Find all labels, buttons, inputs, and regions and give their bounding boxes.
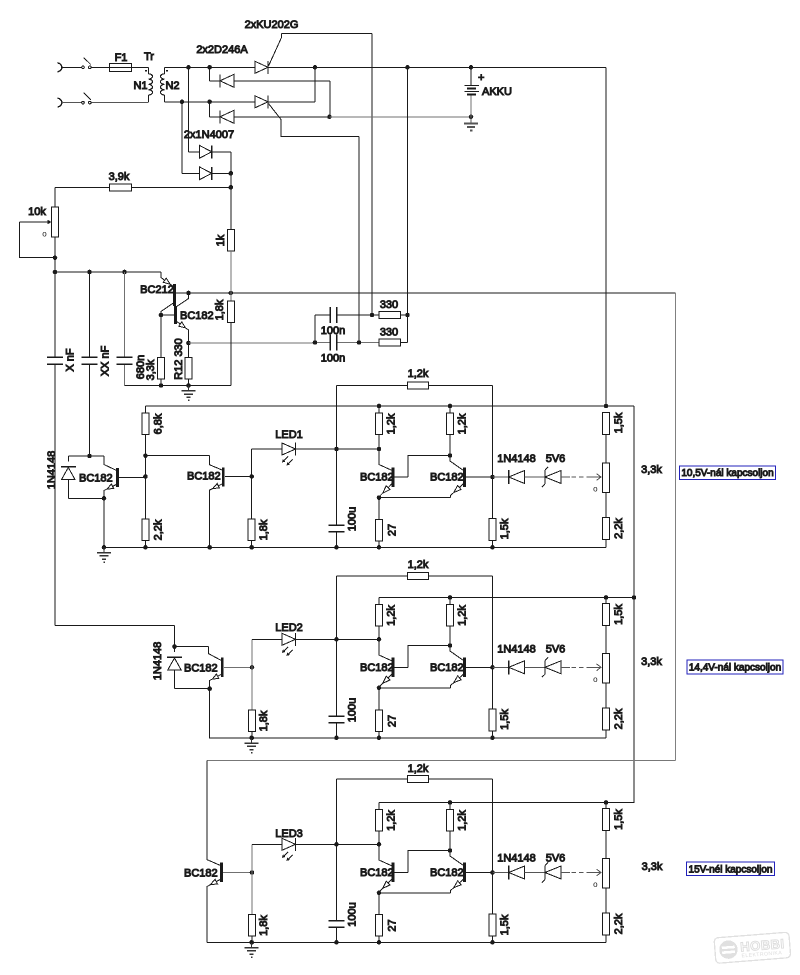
wire led2 left vertical <box>251 639 253 710</box>
transistor BC182 block3 d <box>450 851 493 893</box>
svg-text:BC182: BC182 <box>430 867 464 879</box>
node 3p9k line join <box>229 185 234 190</box>
node bc182c3 base to d collector <box>448 848 453 853</box>
wire XX nF vertical <box>89 272 91 456</box>
svg-text:100u: 100u <box>346 698 358 722</box>
node BC182 reg collector tap <box>186 291 191 296</box>
diode D1 2D246A upper <box>210 67 330 117</box>
node secondary bottom at x182 <box>180 100 185 105</box>
node divider mid <box>143 474 148 479</box>
wire loop2 bottom side <box>175 688 210 690</box>
node output row block1 <box>490 475 495 480</box>
node rail1b 100u <box>334 545 339 550</box>
node 680n tap <box>122 270 127 275</box>
svg-text:1,5k: 1,5k <box>499 518 511 539</box>
node rail1b 1,5k <box>490 545 495 550</box>
AC plug terminal top <box>58 63 62 72</box>
wire TH2 gate <box>269 104 360 343</box>
diode zener 5V6 block2 <box>542 657 570 677</box>
svg-text:1,2k: 1,2k <box>408 368 429 380</box>
wire led2 to collector <box>337 638 380 640</box>
svg-text:1,8k: 1,8k <box>258 710 270 731</box>
diode zener 5V6 block1 <box>542 467 570 487</box>
svg-text:1N4148: 1N4148 <box>152 642 164 681</box>
wire led1 left vertical <box>251 449 253 519</box>
ground block1 <box>97 547 111 562</box>
resistor 1,2k block2 b <box>447 598 454 646</box>
wire supply row y760 <box>207 760 676 762</box>
wire led3 to collector <box>337 843 380 845</box>
wire loop1 to ground <box>103 498 105 547</box>
svg-text:R12 330: R12 330 <box>173 338 185 380</box>
capacitor XX nF <box>82 357 98 364</box>
wire 100n row2 <box>315 342 379 344</box>
wire 10k wiper loop <box>20 222 56 272</box>
node rail2 1,2k b <box>448 595 453 600</box>
node R12 bottom <box>186 383 191 388</box>
resistor 1,5k mid block2 <box>489 667 496 738</box>
resistor 3,9k <box>110 184 132 191</box>
svg-text:LED1: LED1 <box>275 429 303 441</box>
potentiometer chain block1 <box>603 435 610 518</box>
node secondary top at x188 <box>186 65 191 70</box>
node loop2 top <box>172 644 177 649</box>
transistor BC182 block2 c <box>379 639 450 688</box>
svg-text:+: + <box>478 72 484 84</box>
resistor 1,2k block3 a <box>376 803 383 845</box>
node emitter row block2 <box>377 686 382 691</box>
diode 1N4148 block3 out <box>493 866 546 880</box>
resistor 1,8k block1 <box>248 519 255 547</box>
node led1 100u <box>334 447 339 452</box>
node led2 base tap <box>250 665 255 670</box>
svg-text:5V6: 5V6 <box>546 453 566 465</box>
callout box 14,4V <box>687 660 783 674</box>
svg-text:BC182: BC182 <box>184 662 218 674</box>
svg-text:BC212: BC212 <box>140 284 174 296</box>
svg-text:LED2: LED2 <box>275 622 303 634</box>
wire secondary bottom line <box>165 101 316 103</box>
capacitor 100u block2 <box>329 716 345 738</box>
wire feedback row block2 <box>337 576 493 667</box>
wire 100u vertical block1 <box>336 449 338 525</box>
svg-text:1N4148: 1N4148 <box>497 644 536 656</box>
wire led1 to collector <box>337 448 380 450</box>
node negative rail join <box>327 115 332 120</box>
node 1k bottom tap <box>229 291 234 296</box>
wire top rail block1 <box>146 405 635 407</box>
wire rail1 end down <box>606 406 634 803</box>
svg-text:1,2k: 1,2k <box>456 810 468 831</box>
node rail1 chain <box>604 404 609 409</box>
wire block3 bottom left corner <box>207 941 252 943</box>
wire top AC line <box>62 66 83 68</box>
svg-text:1,2k: 1,2k <box>385 810 397 831</box>
svg-text:1,2k: 1,2k <box>456 413 468 434</box>
capacitor 680n <box>117 357 133 364</box>
wire left rail to block2 <box>55 626 175 647</box>
node rail3 chain <box>604 800 609 805</box>
svg-text:1,5k: 1,5k <box>613 604 625 625</box>
wire x675 vertical <box>675 293 677 761</box>
AC plug terminal bottom <box>58 98 62 107</box>
svg-text:100u: 100u <box>346 902 358 926</box>
node BC182 reg emitter <box>186 341 191 346</box>
capacitor 100n upper <box>330 307 337 323</box>
svg-text:N1: N1 <box>133 80 147 92</box>
svg-text:1,2k: 1,2k <box>385 413 397 434</box>
capacitor X nF <box>47 357 63 364</box>
wire loop2 emitter down <box>210 689 252 738</box>
resistor 2,2k chain block2 <box>603 708 610 738</box>
resistor 1,2k feedback block3 <box>408 776 429 783</box>
node rail1b ground <box>102 545 107 550</box>
node bc182c base to d collector <box>448 453 453 458</box>
node divider top <box>143 453 148 458</box>
wire y272 row to BC212 emitter <box>55 271 161 273</box>
ground block3 <box>245 942 259 957</box>
diode D4 1N4007 lower <box>182 102 231 180</box>
svg-text:N2: N2 <box>165 80 179 92</box>
node gate1 junction <box>370 313 375 318</box>
svg-text:27: 27 <box>386 715 398 727</box>
node x55 y272 <box>53 270 58 275</box>
node rail1 1,2k b <box>448 404 453 409</box>
resistor 1,2k block1 b <box>447 406 454 456</box>
svg-text:BC182: BC182 <box>79 473 113 485</box>
node battery plus <box>469 65 474 70</box>
logo HOBBI ELEKTRONIKA watermark <box>714 932 791 963</box>
svg-text:10k: 10k <box>28 206 46 218</box>
svg-text:2x2D246A: 2x2D246A <box>196 44 248 56</box>
resistor 1,2k feedback block1 <box>408 382 429 389</box>
node battery minus <box>469 115 474 120</box>
node rail1b 1,8k <box>249 545 254 550</box>
node loop2 bottom <box>207 686 212 691</box>
node emitter row block1 <box>377 495 382 500</box>
transistor BC182 block3 c <box>379 844 450 893</box>
svg-text:14,4V-nál kapcsoljon: 14,4V-nál kapcsoljon <box>689 663 781 674</box>
svg-text:LED3: LED3 <box>275 828 303 840</box>
wire emitter row block1 <box>379 497 451 499</box>
svg-text:1,2k: 1,2k <box>456 605 468 626</box>
resistor 27 block1 <box>376 498 383 548</box>
capacitor 100u block3 <box>329 921 345 943</box>
wire negative rail to battery <box>330 116 472 118</box>
node rail1b 2,2k <box>143 545 148 550</box>
wire loop1 bottom <box>68 497 104 499</box>
potentiometer chain block3 <box>603 831 610 914</box>
diode D3 1N4007 upper <box>189 67 231 173</box>
node secondary bottom at x209 <box>207 100 212 105</box>
wire x407 vertical <box>401 67 408 342</box>
node diodes join <box>229 171 234 176</box>
svg-text:330: 330 <box>380 299 398 311</box>
svg-text:2,2k: 2,2k <box>613 913 625 934</box>
resistor 27 block2 <box>376 688 383 738</box>
svg-text:3,3k: 3,3k <box>641 656 662 668</box>
svg-text:o: o <box>593 485 598 494</box>
wire bottom AC line <box>62 102 83 104</box>
svg-text:BC182: BC182 <box>360 472 394 484</box>
node 330 upper right <box>405 313 410 318</box>
svg-text:XX nF: XX nF <box>99 345 111 376</box>
svg-text:3,3k: 3,3k <box>641 464 662 476</box>
node led3 base tap <box>250 870 255 875</box>
resistor 1,2k block1 a <box>376 406 383 449</box>
wire join down to 3p9k node <box>230 173 232 187</box>
wire 3,9k corner to pot <box>54 187 56 207</box>
diode D2 2D246A lower <box>210 102 330 124</box>
switch S1a <box>82 58 91 69</box>
svg-text:BC182: BC182 <box>187 471 221 483</box>
wire regulator bottom row <box>125 323 232 386</box>
node rail2b 100u <box>334 736 339 741</box>
node rail2b 27 <box>377 736 382 741</box>
svg-text:1,2k: 1,2k <box>385 605 397 626</box>
resistor 1k <box>227 187 234 293</box>
resistor 1,2k feedback block2 <box>408 573 429 580</box>
node loop1 top <box>87 454 92 459</box>
svg-text:BC182: BC182 <box>360 867 394 879</box>
capacitor 100u block1 <box>329 525 345 547</box>
node led1 base tap <box>249 474 254 479</box>
wire arrow to pot block1 <box>587 474 601 481</box>
svg-text:2x1N4007: 2x1N4007 <box>184 129 234 141</box>
wire 100u vertical block2 <box>336 639 338 716</box>
node pot bottom loop <box>53 255 58 260</box>
wire 680n vertical <box>124 272 126 386</box>
wire top rail block3 <box>379 802 606 804</box>
node rail2 x634 <box>632 595 637 600</box>
svg-text:15V-nél kapcsoljon: 15V-nél kapcsoljon <box>689 864 773 875</box>
resistor 2,2k divider <box>142 519 149 547</box>
diode zener 5V6 block3 <box>542 863 570 883</box>
node xxnf tap <box>87 270 92 275</box>
capacitor 100n lower <box>330 335 337 351</box>
svg-text:1,8k: 1,8k <box>258 519 270 540</box>
svg-text:X nF: X nF <box>64 348 76 372</box>
svg-text:27: 27 <box>386 919 398 931</box>
transistor BC182 block1 c <box>379 449 450 498</box>
svg-text:3,9k: 3,9k <box>109 171 130 183</box>
node led1 collector <box>377 447 382 452</box>
resistor 330 upper <box>379 312 401 319</box>
thyristor TH2 <box>255 95 268 108</box>
LED LED3 <box>252 838 337 860</box>
node rail3b 1,5k <box>490 940 495 945</box>
node rail1b emitter <box>207 545 212 550</box>
transformer primary N1 <box>145 67 153 102</box>
battery AKKU <box>464 67 478 117</box>
svg-text:1,8k: 1,8k <box>214 299 226 320</box>
resistor R12 330 <box>185 343 192 386</box>
svg-text:1N4148: 1N4148 <box>46 451 58 490</box>
wire 100u vertical block3 <box>336 844 338 920</box>
node rail3 1,2k b <box>448 800 453 805</box>
resistor 1,5k chain block1 <box>603 413 610 435</box>
svg-text:2,2k: 2,2k <box>613 708 625 729</box>
svg-text:6,8k: 6,8k <box>152 413 164 434</box>
wire divider vertical <box>145 456 147 519</box>
thyristor TH1 <box>255 61 268 74</box>
svg-text:1,8k: 1,8k <box>258 915 270 936</box>
resistor 1,5k chain block3 <box>603 803 610 831</box>
node rail2b 1,5k <box>490 736 495 741</box>
resistor 1,8k block2 <box>249 710 256 738</box>
resistor 1,2k block3 b <box>447 803 454 851</box>
node rail3b 100u <box>334 940 339 945</box>
svg-text:o: o <box>593 675 598 684</box>
transformer secondary N2 <box>161 67 169 102</box>
node rail2b 1,8k <box>249 736 254 741</box>
node gate2 junction <box>357 340 362 345</box>
wire fuse to transformer <box>132 66 149 68</box>
svg-text:BC182: BC182 <box>180 310 214 322</box>
svg-text:1N4148: 1N4148 <box>497 453 536 465</box>
callout box 15V <box>687 862 775 876</box>
svg-text:2,2k: 2,2k <box>152 519 164 540</box>
node secondary top at x209 <box>207 65 212 70</box>
LED LED1 <box>252 443 337 465</box>
resistor 1,8k block3 <box>249 915 256 943</box>
switch S1b <box>82 93 91 104</box>
wire led3 left vertical <box>251 844 253 914</box>
node emitter row block3 <box>377 891 382 896</box>
node output row block3 <box>490 870 495 875</box>
wire left rail x55 down <box>54 272 56 626</box>
wire arrow to pot block3 <box>587 869 601 876</box>
svg-text:1,5k: 1,5k <box>499 914 511 935</box>
wire emitter row block2 <box>379 687 451 689</box>
ground battery <box>464 117 478 131</box>
svg-text:100n: 100n <box>321 325 345 337</box>
node led2 collector <box>377 637 382 642</box>
node thyristor2 cathode junction <box>313 65 318 70</box>
svg-text:1k: 1k <box>215 234 227 246</box>
node led3 collector <box>377 842 382 847</box>
node BC212 collector <box>159 313 164 318</box>
svg-text:5V6: 5V6 <box>546 853 566 865</box>
wire dashed wiper block1 <box>572 476 588 478</box>
wire secondary top line to rail <box>165 66 607 68</box>
svg-text:BC182: BC182 <box>430 472 464 484</box>
resistor 27 block3 <box>376 893 383 943</box>
wire 100n row1 <box>315 315 408 343</box>
svg-text:1,5k: 1,5k <box>613 412 625 433</box>
wire dashed wiper block3 <box>572 872 588 874</box>
wire top rail block2 <box>379 597 634 599</box>
resistor 6,8k <box>142 406 149 456</box>
wire BC212 base line long <box>176 292 676 294</box>
transistor BC182 block2 d <box>450 646 493 688</box>
svg-text:100n: 100n <box>321 353 345 365</box>
diode 1N4148 block2 out <box>493 660 546 674</box>
node row2 left <box>313 340 318 345</box>
diode 1N4148 block1 <box>61 456 76 498</box>
node led3 100u <box>334 842 339 847</box>
resistor 1,2k block2 a <box>376 598 383 640</box>
potentiometer chain block2 <box>603 626 610 709</box>
resistor 1,5k mid block1 <box>489 477 496 547</box>
wire switch to transformer bottom <box>91 102 148 104</box>
node rail3b 1,8k <box>249 940 254 945</box>
wire arrow to pot block2 <box>587 664 601 671</box>
transistor BC182 block1 mid <box>210 468 252 548</box>
svg-text:27: 27 <box>386 524 398 536</box>
diode 1N4148 block1 out <box>493 470 546 484</box>
callout box 10,5V <box>680 466 776 480</box>
svg-text:3,3k: 3,3k <box>642 861 663 873</box>
wire bottom rail block2 <box>210 737 606 739</box>
transistor BC182 block1 d <box>450 456 493 498</box>
wire emitter row block3 <box>379 892 451 894</box>
node bc182c2 base to d collector <box>448 643 453 648</box>
wire loop1 top <box>68 455 104 457</box>
svg-text:330: 330 <box>380 327 398 339</box>
svg-text:o: o <box>42 230 47 239</box>
LED LED2 <box>252 633 337 655</box>
wire loop2 top side <box>175 646 209 648</box>
svg-text:1,2k: 1,2k <box>408 559 429 571</box>
svg-text:2,2k: 2,2k <box>613 518 625 539</box>
node loop1 bottom <box>102 496 107 501</box>
diode 1N4148 block2 <box>167 647 182 689</box>
wire to fuse <box>91 66 109 68</box>
svg-text:1N4148: 1N4148 <box>497 853 536 865</box>
resistor 1,5k chain block2 <box>603 598 610 626</box>
wire TH2 cathode up to rail <box>314 67 316 102</box>
transistor BC182 block2 left <box>208 647 252 689</box>
svg-text:BC182: BC182 <box>184 868 218 880</box>
transistor BC212 <box>161 272 175 315</box>
node 3,3k bottom <box>159 383 164 388</box>
wire x207 down to transistor <box>207 761 220 866</box>
wire divider to BC182b collector <box>146 456 223 470</box>
wire emitter row to 100n <box>189 342 316 344</box>
svg-text:Tr: Tr <box>144 51 154 63</box>
wire feedback row block1 <box>337 386 493 477</box>
wire TH1 gate <box>269 34 373 316</box>
node rail3b 27 <box>377 940 382 945</box>
wire feedback row block3 <box>337 779 493 873</box>
resistor 1,8k upper <box>228 293 235 323</box>
svg-text:BC182: BC182 <box>430 662 464 674</box>
ground regulator <box>182 386 196 401</box>
resistor 2,2k chain block1 <box>603 518 610 548</box>
svg-text:1,5k: 1,5k <box>499 709 511 730</box>
wire bottom rail block3 <box>207 941 606 943</box>
svg-text:2xKU202G: 2xKU202G <box>245 19 299 31</box>
svg-text:F1: F1 <box>115 52 128 64</box>
node rail2 chain <box>604 595 609 600</box>
wire 3,9k row <box>55 186 231 188</box>
svg-text:o: o <box>593 880 598 889</box>
svg-text:5V6: 5V6 <box>546 644 566 656</box>
transistor BC182 block1 left <box>104 456 146 498</box>
svg-text:100u: 100u <box>346 507 358 531</box>
fuse F1 <box>110 63 132 71</box>
transistor BC182 regulator <box>161 293 189 343</box>
node rail1 1,2k a <box>377 404 382 409</box>
svg-text:10,5V-nál kapcsoljon: 10,5V-nál kapcsoljon <box>681 468 773 479</box>
node rail1b 27 <box>377 545 382 550</box>
resistor 330 lower <box>379 339 401 346</box>
node output row block2 <box>490 665 495 670</box>
transistor BC182 block3 left <box>207 863 252 943</box>
resistor 3,3k regulator <box>158 315 165 386</box>
svg-text:1,5k: 1,5k <box>613 809 625 830</box>
